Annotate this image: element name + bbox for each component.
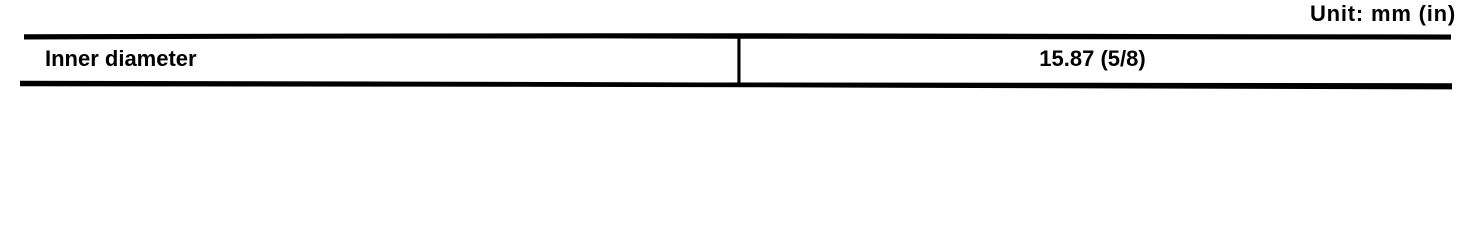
unit label: Unit: mm (in) [1310,3,1456,25]
table column divider [737,36,740,84]
row label cell: Inner diameter [45,48,197,70]
row value cell: 15.87 (5/8) [736,48,1449,70]
table bottom rule [20,81,1452,90]
table top rule [24,33,1451,39]
